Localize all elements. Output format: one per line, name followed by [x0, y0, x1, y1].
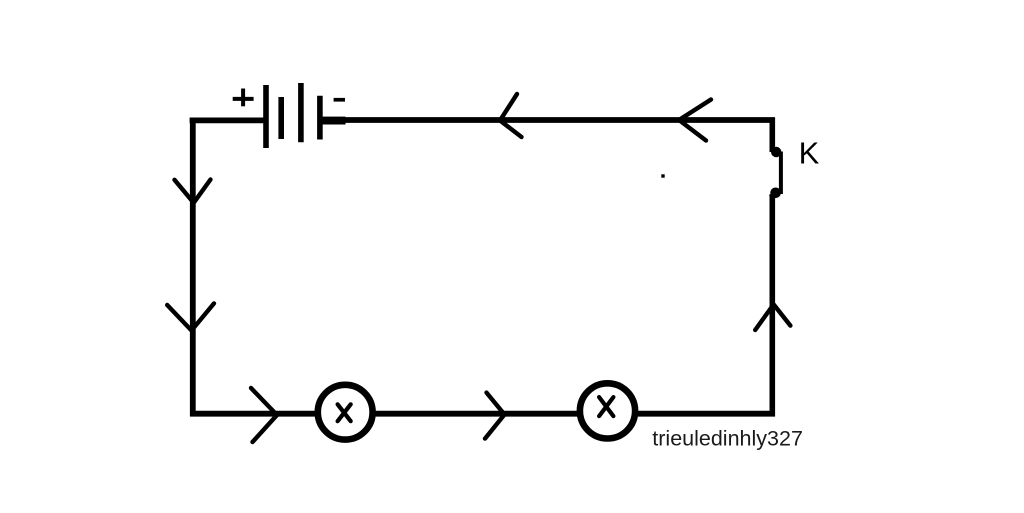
svg-text:K: K	[799, 135, 820, 170]
battery B1 long plate bar 1 (positive)	[263, 85, 269, 148]
current arrow on bottom wire, left chevron	[251, 388, 277, 442]
wire top side right segment (battery negative to top-right corner)	[344, 117, 775, 123]
lamp L2 X mark	[599, 397, 613, 416]
wire right side upper segment (top-right corner down to switch)	[769, 118, 775, 152]
battery minus polarity label	[334, 98, 345, 102]
lamp L1 circle body	[318, 385, 373, 440]
current arrow on bottom wire, right chevron	[485, 393, 505, 439]
battery B1 short plate bar 4 (negative)	[317, 96, 323, 140]
current arrow on top wire, right chevron	[679, 100, 711, 141]
wire top side left segment (battery positive to top-left corner)	[190, 118, 267, 124]
switch K upper contact blob	[771, 147, 781, 157]
stray dot node	[661, 174, 664, 177]
wire left side (top-left corner to bottom-left corner)	[190, 118, 196, 417]
switch K blade segment	[779, 152, 783, 195]
wire bottom side (bottom-left corner to bottom-right corner)	[190, 411, 775, 417]
current arrow on left wire, lower chevron	[167, 303, 214, 330]
battery B1 short plate bar 2	[278, 97, 284, 139]
current arrow on top wire, left chevron	[500, 94, 522, 137]
lamp L1 X mark	[338, 404, 351, 421]
current arrow on left wire, upper chevron	[175, 180, 211, 203]
battery B1 negative terminal stub	[320, 117, 346, 125]
switch K lower contact blob	[770, 188, 781, 199]
wire right side lower segment (switch down to bottom-right corner)	[769, 196, 775, 417]
battery B1 long plate bar 3	[298, 83, 304, 142]
switch K lower contact spike	[770, 192, 776, 196]
svg-text:trieuledinhly327: trieuledinhly327	[652, 427, 803, 451]
current arrow on right wire, upward chevron	[755, 304, 790, 330]
lamp L2 circle body	[580, 383, 635, 438]
battery plus polarity label	[233, 89, 254, 107]
